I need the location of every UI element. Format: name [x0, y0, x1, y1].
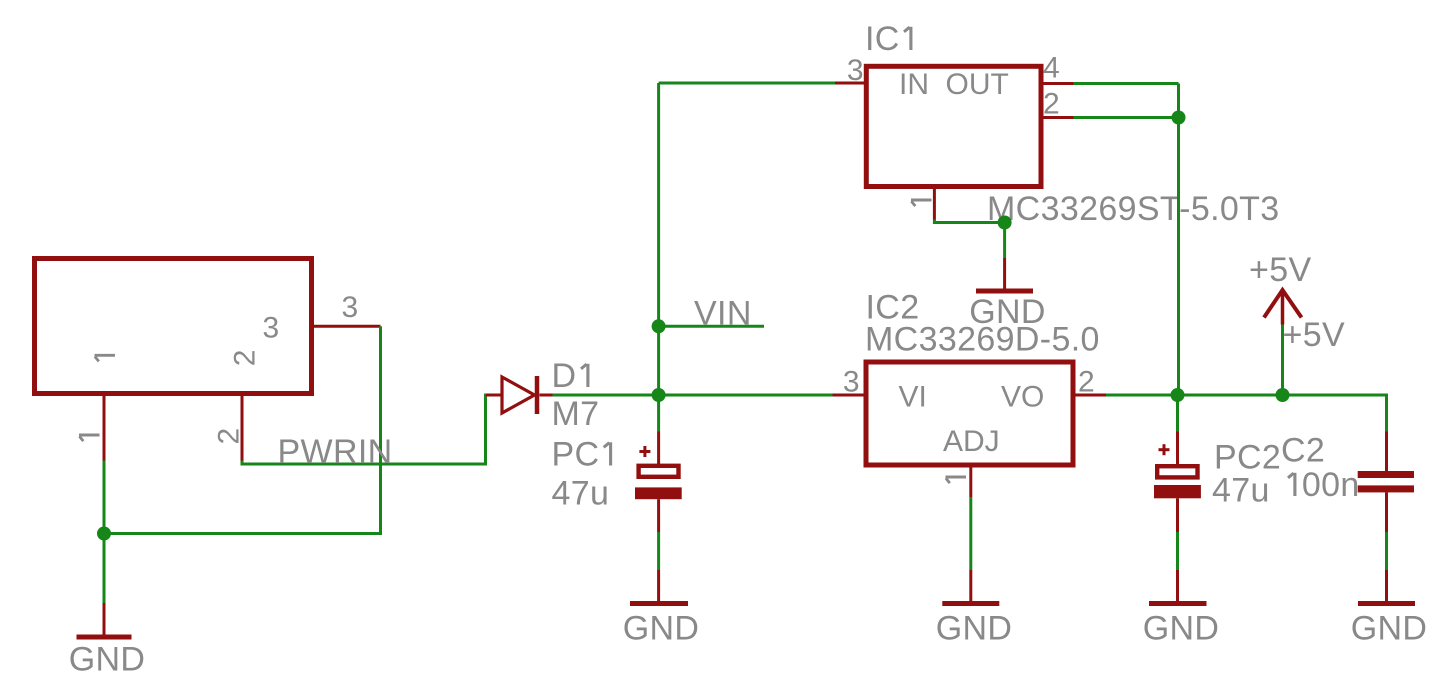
svg-text:IC: IC — [865, 20, 900, 58]
IC1 pin 1 (tab) stub — [933, 187, 936, 220]
capacitor PC1 bottom pin — [657, 499, 660, 532]
ground symbol GND (connector) bar — [77, 635, 132, 640]
svg-text:ADJ: ADJ — [943, 425, 1000, 458]
svg-text:GND: GND — [1143, 610, 1220, 648]
capacitor C2 top plate — [1358, 471, 1414, 478]
capacitor PC1 negative plate — [635, 487, 682, 499]
svg-text:M7: M7 — [552, 395, 600, 433]
capacitor PC2 positive plate (hollow) — [1155, 464, 1200, 480]
wire PC1 to ground — [657, 532, 660, 570]
svg-text:4: 4 — [1043, 52, 1060, 85]
svg-text:OUT: OUT — [946, 68, 1009, 101]
svg-text:+5V: +5V — [1283, 316, 1346, 354]
IC1 pin 1 number label (rotated) — [911, 200, 932, 206]
capacitor PC1 top pin — [657, 395, 660, 432]
wire PC2 to ground — [1176, 532, 1179, 570]
junction node at PC2 top — [1171, 388, 1185, 402]
IC1 body — [866, 66, 1041, 186]
svg-text:3: 3 — [843, 366, 860, 399]
svg-text:MC33269ST-5.0T3: MC33269ST-5.0T3 — [987, 190, 1280, 228]
wire IC2 VO to output rail — [1106, 395, 1387, 432]
svg-text:GND: GND — [1351, 610, 1428, 648]
wire +5V stem to rail — [1281, 325, 1284, 396]
capacitor C2 bottom plate — [1358, 485, 1414, 492]
wire IC1 pin 4 to right riser — [1074, 82, 1179, 85]
IC2 pin 1 (ADJ) stub — [969, 465, 972, 497]
svg-text:VIN: VIN — [694, 295, 752, 333]
diode D1 cathode bar — [535, 376, 540, 414]
ground symbol GND (PC2) bar — [1149, 601, 1207, 606]
svg-text:PC: PC — [552, 436, 600, 474]
wire IC2 ADJ to ground — [969, 497, 972, 570]
wire rail from diode to IC2 VI — [553, 394, 833, 397]
svg-text:MC33269D-5.0: MC33269D-5.0 — [865, 321, 1100, 359]
ground symbol GND (C2) pin — [1385, 570, 1388, 602]
connector pin 1 number label (outside, rotated) — [79, 435, 100, 441]
svg-text:3: 3 — [847, 54, 864, 87]
junction node at +5V stem — [1276, 388, 1290, 402]
svg-text:VI: VI — [899, 381, 927, 414]
connector pin 1 stub — [103, 394, 106, 461]
svg-text:2: 2 — [1078, 366, 1095, 399]
diode D1 cathode lead — [540, 394, 553, 397]
IC2 pin 2 (VO) stub — [1073, 394, 1106, 397]
wire down to IC1 ground symbol — [1003, 223, 1006, 259]
svg-text:47u: 47u — [1212, 472, 1270, 510]
svg-text:47u: 47u — [552, 475, 610, 513]
connector pin 2 stub — [241, 394, 244, 461]
svg-text:2: 2 — [213, 428, 246, 445]
ground symbol GND (IC2 ADJ) pin — [969, 570, 972, 602]
svg-text:2: 2 — [229, 350, 262, 367]
ground symbol GND (connector) pin — [103, 603, 106, 635]
wire top run to IC1 IN — [659, 82, 835, 85]
wire IC1 pin 2 to right riser — [1074, 116, 1179, 119]
ground symbol GND (PC1) bar — [630, 601, 688, 606]
IC2 pin 1 number label (rotated) — [946, 477, 967, 483]
ground symbol GND (IC1) bar — [976, 289, 1033, 294]
junction node at VIN label stub — [652, 319, 666, 333]
capacitor PC2 plus sign — [1159, 444, 1170, 455]
svg-text:GND: GND — [936, 610, 1013, 648]
svg-text:GND: GND — [623, 610, 700, 648]
svg-text:00n: 00n — [1302, 466, 1360, 504]
capacitor PC2 bottom pin — [1176, 498, 1179, 532]
capacitor C2 bottom pin — [1385, 492, 1388, 532]
IC1 pin 2 stub — [1041, 116, 1074, 119]
svg-text:+5V: +5V — [1249, 251, 1312, 289]
junction node at pin2/pin4 tie — [1172, 111, 1186, 125]
wire pin1 to ground node — [103, 461, 106, 604]
svg-text:D: D — [552, 357, 577, 395]
wire right riser top segment — [1177, 84, 1180, 118]
wire vertical main VIN riser — [657, 83, 660, 395]
power symbol +5V stem (pin) — [1281, 290, 1285, 325]
capacitor C2 value label — [1288, 473, 1295, 496]
IC2 pin 3 (VI) stub — [833, 394, 867, 397]
wire C2 to ground — [1385, 532, 1388, 570]
diode D1 triangle — [502, 377, 535, 413]
ground symbol GND (IC1) pin — [1003, 258, 1006, 289]
IC1 pin 3 (IN) stub — [835, 82, 866, 85]
connector X1 (PWRIN header) body — [35, 259, 312, 394]
diode D1 anode lead — [486, 394, 502, 397]
IC1 pin 4 stub — [1041, 82, 1074, 85]
capacitor PC1 plus sign — [639, 446, 650, 457]
ground symbol GND (PC1) pin — [657, 570, 660, 602]
svg-text:VO: VO — [1001, 381, 1044, 414]
ground symbol GND (PC2) pin — [1176, 570, 1179, 602]
wire pin3 down and across to ground node — [104, 326, 381, 533]
svg-text:C2: C2 — [1281, 432, 1325, 470]
power symbol +5V arrow — [1264, 290, 1302, 318]
wire net PWRIN from pin2 to diode — [242, 395, 487, 464]
svg-text:PWRIN: PWRIN — [278, 433, 393, 471]
ground symbol GND (IC2 ADJ) bar — [942, 601, 999, 606]
capacitor C2 top pin — [1385, 432, 1388, 472]
capacitor PC1 positive plate (hollow) — [636, 464, 680, 479]
svg-text:IN: IN — [899, 68, 929, 101]
ground symbol GND (C2) bar — [1358, 601, 1415, 606]
connector pin 3 stub — [312, 325, 381, 328]
junction node at IC1 ground tie — [998, 216, 1012, 230]
junction node at pin1/pin3 ground tie — [97, 527, 111, 541]
svg-text:3: 3 — [342, 291, 359, 324]
connector pin 1 name label (inside, rotated) — [95, 355, 116, 361]
wire VIN label stub — [659, 325, 764, 328]
capacitor PC2 top pin — [1176, 395, 1179, 432]
wire IC1 pin1 to ground junction — [934, 220, 1004, 223]
svg-text:GND: GND — [69, 641, 146, 679]
junction node at PC1 top — [652, 388, 666, 402]
capacitor PC2 negative plate — [1154, 485, 1201, 498]
svg-text:2: 2 — [1043, 88, 1060, 121]
wire right riser to +5V rail — [1177, 118, 1180, 396]
IC2 body — [866, 362, 1073, 465]
svg-text:3: 3 — [263, 312, 280, 345]
